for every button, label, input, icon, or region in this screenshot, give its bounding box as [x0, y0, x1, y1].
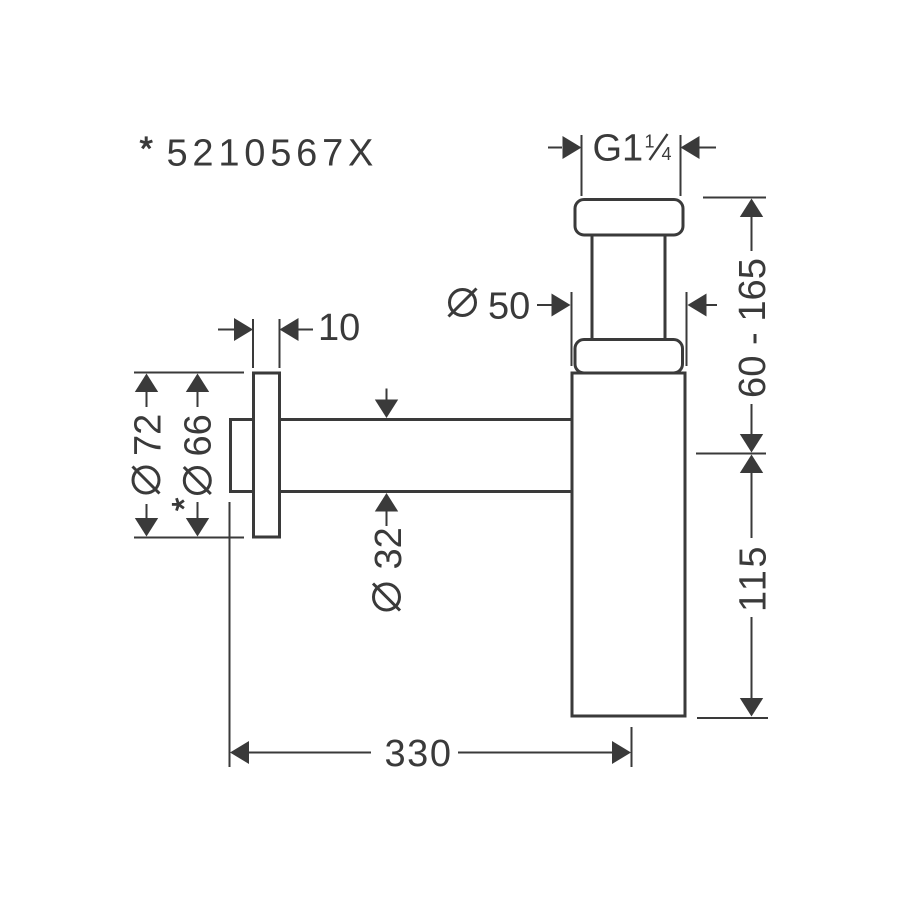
svg-text:330: 330 — [385, 733, 453, 775]
svg-text:115: 115 — [733, 544, 775, 612]
svg-text:5210567X: 5210567X — [167, 133, 379, 175]
svg-text:66: 66 — [178, 414, 220, 456]
svg-text:50: 50 — [488, 286, 530, 328]
svg-text:10: 10 — [318, 307, 360, 349]
svg-text:1: 1 — [645, 132, 655, 152]
svg-text:60 - 165: 60 - 165 — [732, 258, 774, 398]
svg-text:72: 72 — [128, 414, 170, 456]
svg-text:32: 32 — [368, 527, 410, 569]
svg-text:4: 4 — [662, 144, 672, 164]
svg-text:G1: G1 — [593, 128, 644, 170]
